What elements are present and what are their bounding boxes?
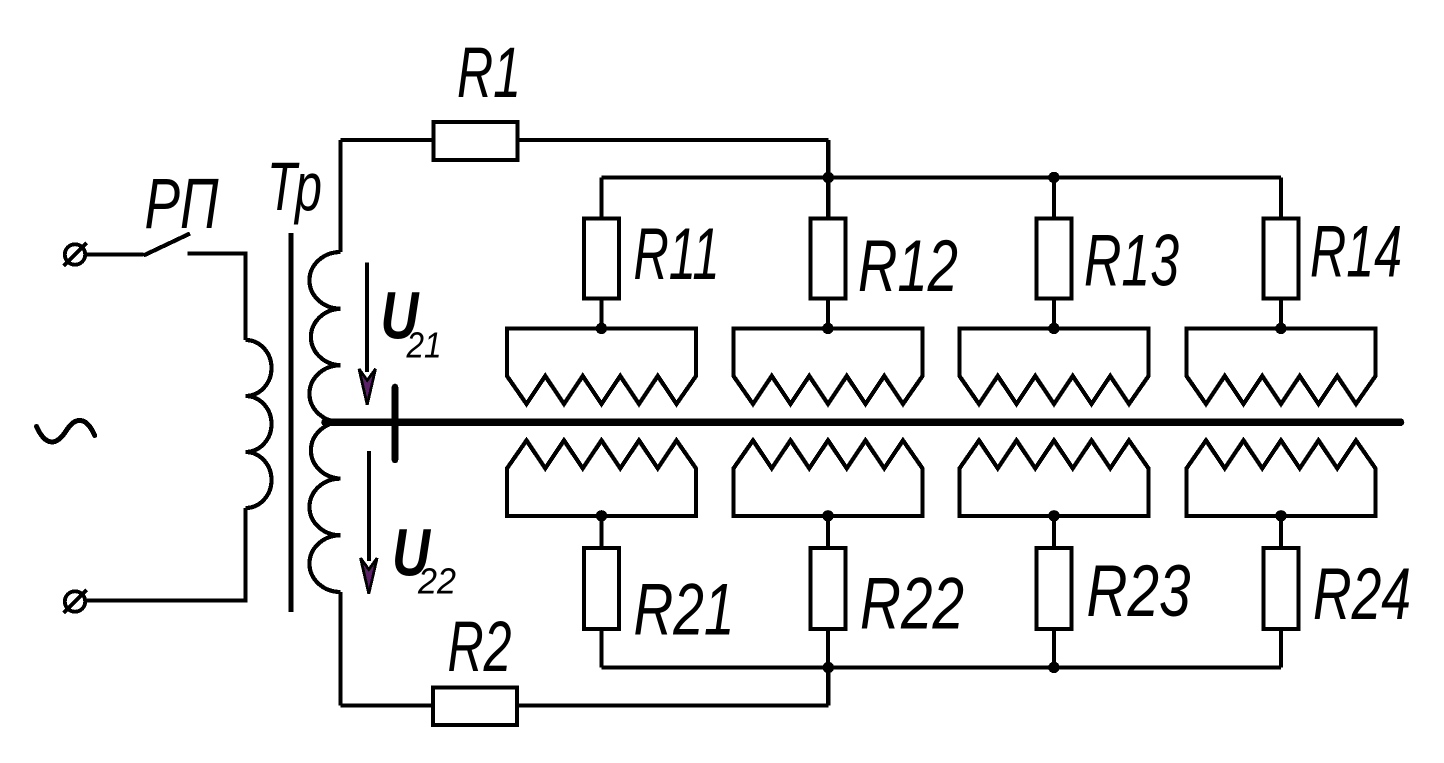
svg-text:R14: R14 (1310, 212, 1402, 293)
svg-text:R2: R2 (448, 608, 512, 687)
svg-text:Тр: Тр (267, 148, 322, 225)
svg-text:R24: R24 (1313, 554, 1411, 635)
svg-text:R11: R11 (634, 214, 720, 295)
svg-text:R23: R23 (1087, 551, 1191, 632)
svg-text:R12: R12 (858, 226, 958, 307)
svg-text:R21: R21 (634, 570, 735, 651)
svg-text:21: 21 (406, 325, 442, 366)
svg-text:22: 22 (417, 561, 456, 602)
svg-text:R1: R1 (457, 34, 521, 113)
svg-text:РП: РП (145, 165, 219, 244)
svg-text:R13: R13 (1084, 221, 1179, 302)
svg-text:R22: R22 (860, 564, 964, 645)
